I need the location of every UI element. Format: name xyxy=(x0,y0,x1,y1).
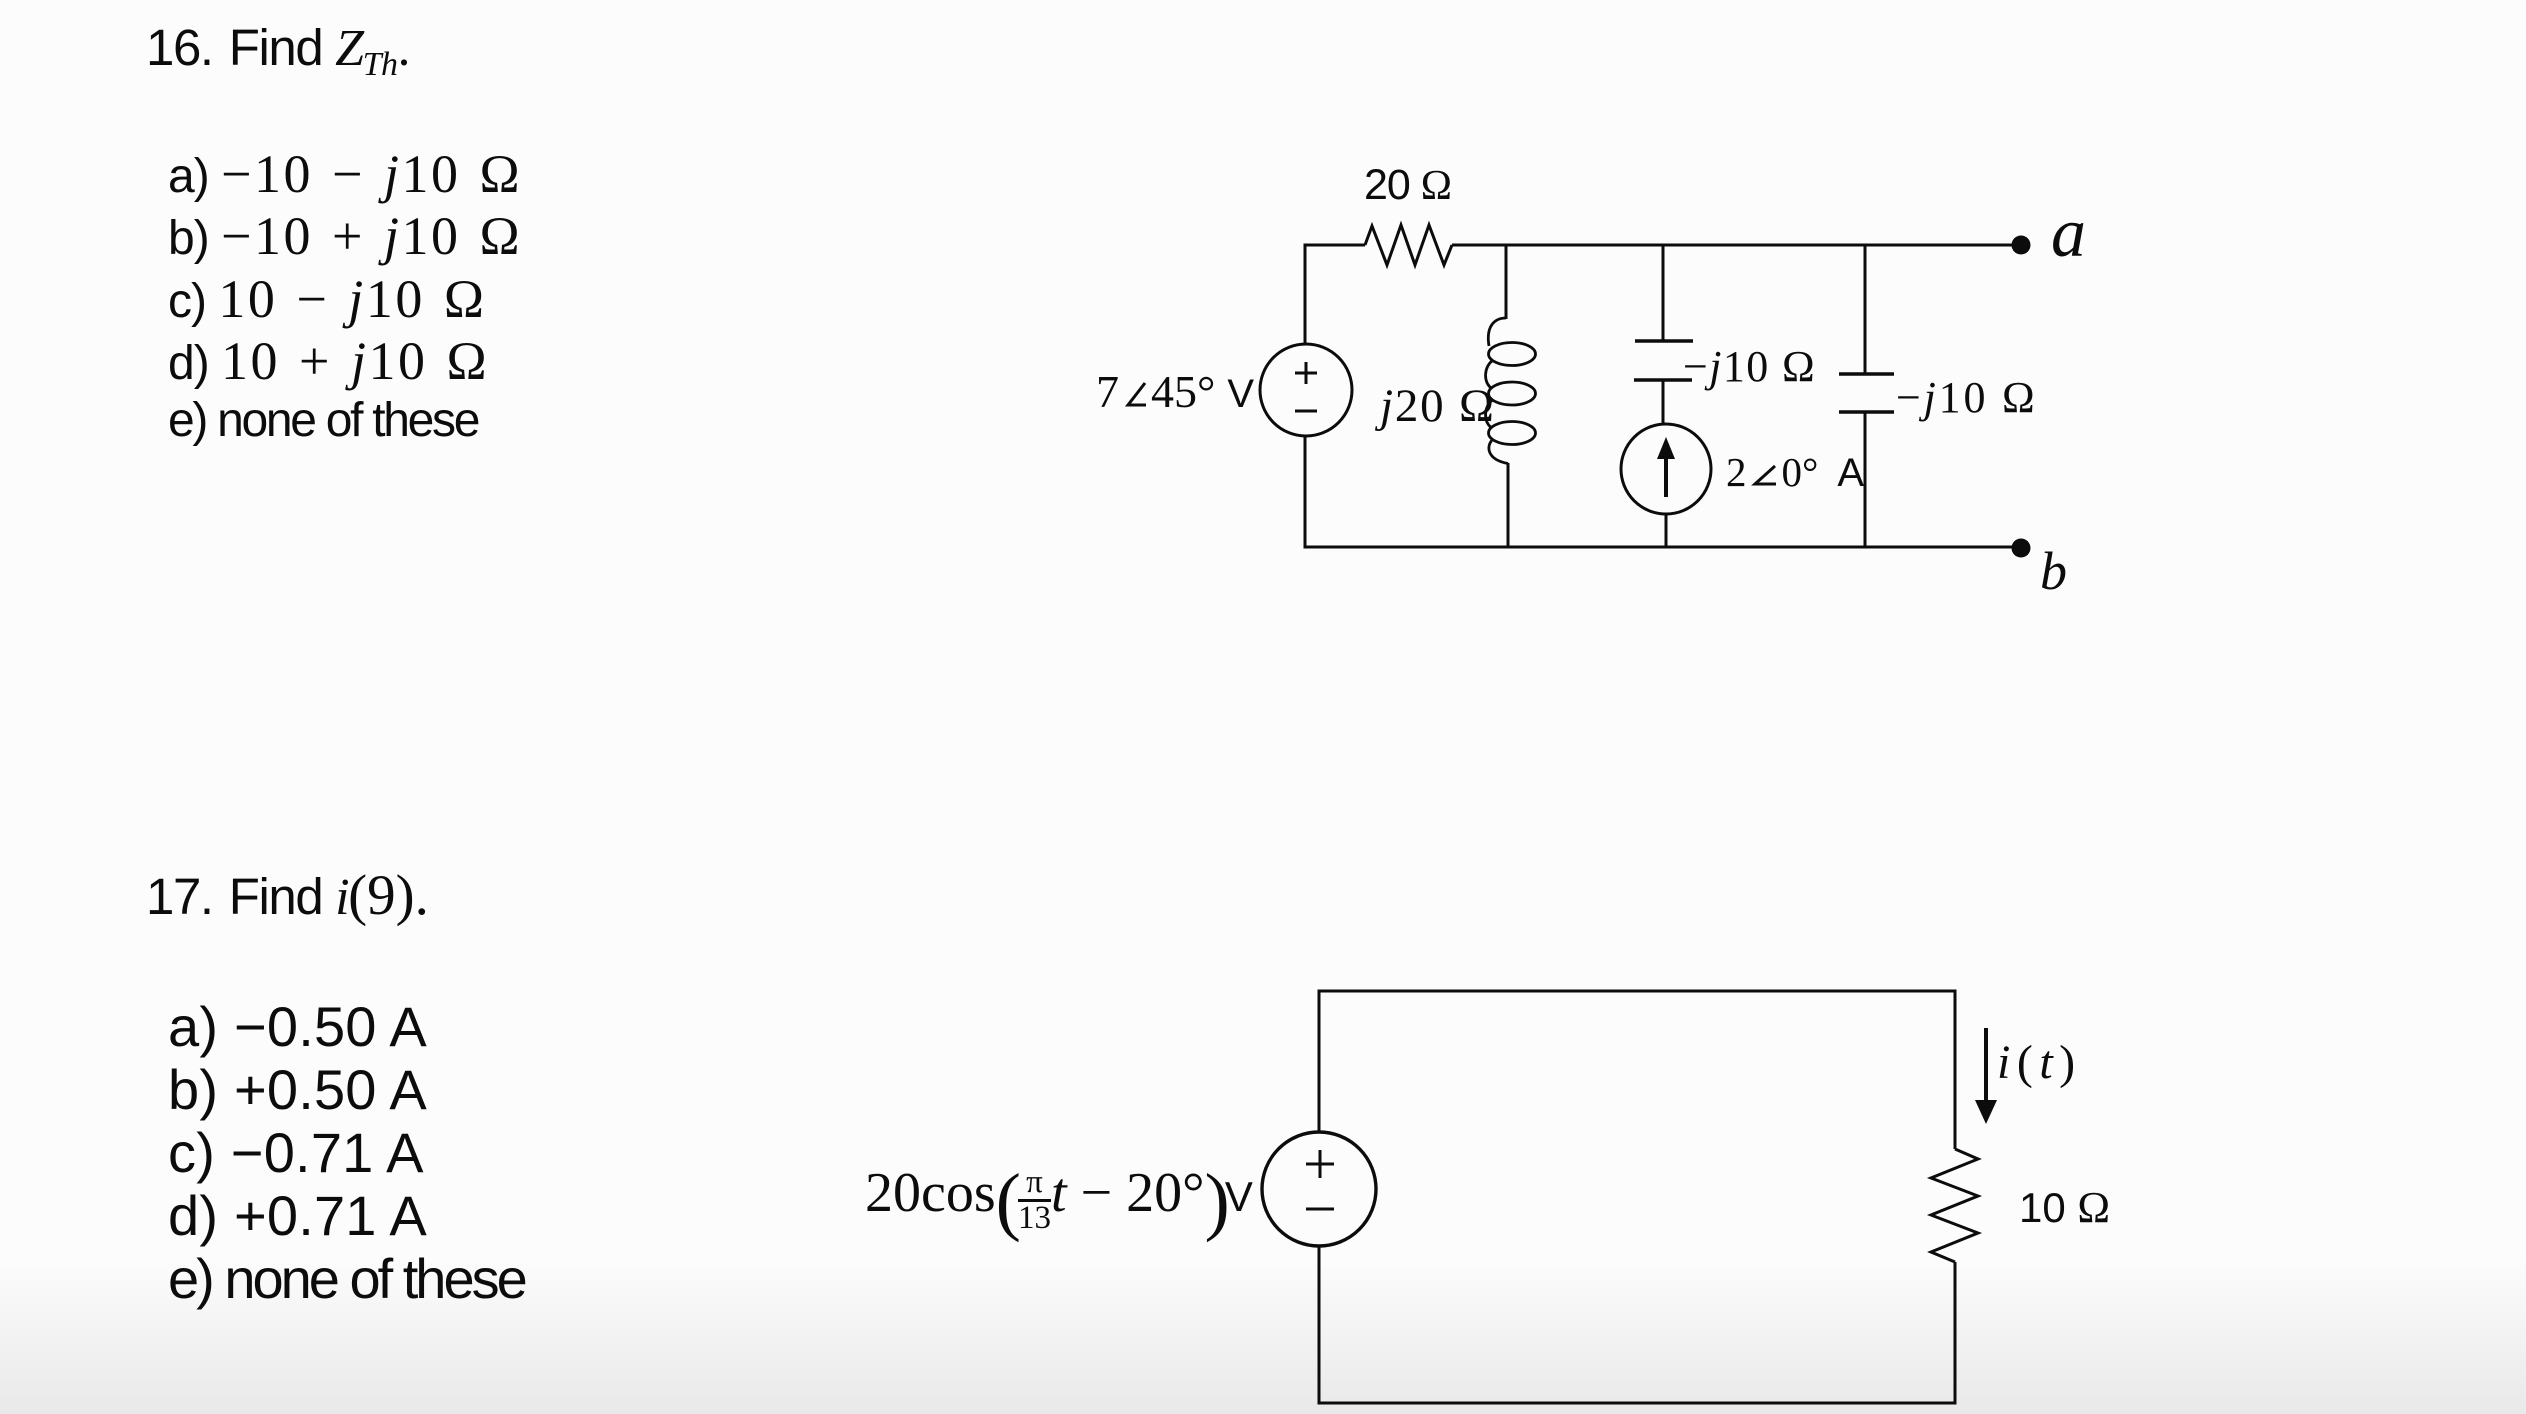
capacitor C1 bottom plate xyxy=(1634,378,1692,382)
node b terminal dot xyxy=(2012,539,2031,558)
option 17a xyxy=(168,999,427,1055)
wire: circuit2 top rail xyxy=(1318,990,1957,993)
node a terminal dot xyxy=(2012,236,2031,255)
wire: circuit2 left branch bottom xyxy=(1318,1246,1321,1405)
capacitor C2 top plate xyxy=(1839,372,1894,376)
wire: capacitor C2 bottom stub xyxy=(1864,412,1867,549)
option 17b xyxy=(168,1062,427,1118)
current source I1 circle xyxy=(1621,424,1711,514)
V1 plus sign xyxy=(1295,362,1317,384)
label i(t) xyxy=(1997,1039,2082,1087)
wire: top rail from resistor to node a xyxy=(1452,244,2021,247)
wire: circuit2 bottom rail xyxy=(1318,1402,1957,1405)
option 16c xyxy=(168,272,486,326)
inductor L1 j20 ohm coil xyxy=(1486,318,1536,464)
wire: inductor top stub xyxy=(1505,245,1508,319)
label -j10 ohm (C2) xyxy=(1896,376,2038,420)
resistor R2 10 ohm zigzag xyxy=(1931,1149,1978,1262)
wire: current source to bottom rail xyxy=(1665,514,1668,549)
wire: circuit1 left branch top (source to top rail) xyxy=(1304,245,1307,344)
I1 arrow up xyxy=(1664,450,1668,497)
current direction arrow i(t) xyxy=(1984,1028,1988,1106)
wire: circuit1 left branch bottom (source to bottom rail) xyxy=(1304,436,1307,549)
label 7 angle 45 V xyxy=(1096,369,1254,417)
label node b xyxy=(2040,544,2067,598)
wire: capacitor C2 top stub xyxy=(1864,245,1867,374)
label 10 ohm xyxy=(2019,1186,2110,1230)
option 17c xyxy=(168,1125,424,1181)
wire: inductor bottom stub xyxy=(1507,463,1510,549)
V2 minus sign xyxy=(1306,1208,1334,1211)
wire: capacitor C1 top stub xyxy=(1662,245,1665,341)
wire: circuit2 left branch top xyxy=(1318,990,1321,1133)
capacitor C2 bottom plate xyxy=(1839,410,1894,414)
option 16b xyxy=(168,209,522,263)
label -j10 ohm (C1) xyxy=(1683,345,1816,389)
question 16 title xyxy=(146,22,409,82)
question 17 title xyxy=(146,867,429,924)
voltage source V2 circle xyxy=(1262,1132,1376,1246)
label 20 ohm xyxy=(1364,164,1451,207)
V2 plus sign xyxy=(1306,1150,1334,1178)
wire: circuit2 right branch top xyxy=(1954,991,1957,1149)
option 16a xyxy=(168,147,522,201)
option 16d xyxy=(168,334,489,388)
option 16e xyxy=(168,397,478,445)
label j20 ohm xyxy=(1380,383,1496,430)
wire: top rail left segment xyxy=(1304,244,1366,247)
wire: C1 to current source xyxy=(1662,380,1665,425)
wire: circuit2 right branch bottom xyxy=(1954,1262,1957,1405)
option 17d xyxy=(168,1188,427,1244)
capacitor C1 top plate xyxy=(1635,339,1693,343)
label V2 source expression xyxy=(865,1163,1253,1239)
voltage source V1 circle xyxy=(1260,344,1352,436)
wire: bottom rail xyxy=(1305,546,2021,549)
resistor R1 20 ohm zigzag xyxy=(1365,225,1452,265)
option 17e xyxy=(168,1251,525,1307)
label node a xyxy=(2051,199,2086,269)
V1 minus sign xyxy=(1295,410,1317,413)
label 2 angle 0 A xyxy=(1726,452,1864,495)
